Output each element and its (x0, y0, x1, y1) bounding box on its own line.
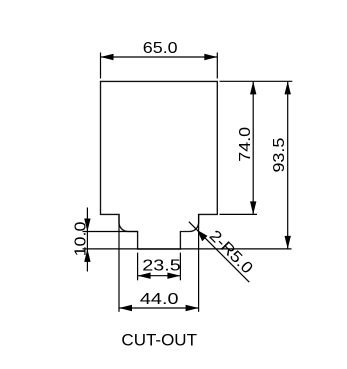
dimension 44.0 arrow left (119, 305, 132, 311)
leader line for 2-R5.0 (189, 222, 250, 283)
dimension 23.5 extension line right (179, 253, 181, 281)
dimension 74.0 arrow down (250, 201, 256, 214)
top extension line for vertical dimensions (220, 80, 293, 82)
dimension 44.0 extension line left (118, 214, 120, 311)
dimension 93.5 arrow up (285, 81, 291, 94)
dimension 44.0 arrow right (186, 305, 199, 311)
dimension 10.0 arrow up (below span) (84, 249, 90, 262)
svg-text:93.5: 93.5 (270, 138, 288, 173)
dimension 65.0 line (101, 56, 218, 58)
svg-text:74.0: 74.0 (236, 127, 254, 162)
svg-text:10.0: 10.0 (71, 222, 89, 257)
bottom extension line for 93.5 and 10.0 (83, 248, 292, 250)
dimension 44.0 line (119, 307, 199, 309)
dimension 23.5 arrow right (167, 273, 180, 279)
dimension 74.0 line (252, 81, 254, 214)
dimension 74.0 arrow up (250, 81, 256, 94)
dimension 65.0 extension line left (100, 53, 102, 79)
mid extension line for 10.0 (83, 231, 138, 233)
svg-text:65.0: 65.0 (143, 39, 178, 57)
cut-out profile outline (101, 81, 218, 249)
dimension 65.0 arrow right (204, 54, 217, 60)
leader arrow 2-R5.0 (197, 230, 208, 241)
dimension 65.0 arrow left (101, 54, 114, 60)
dimension 23.5 arrow left (138, 273, 151, 279)
step extension line for 74.0 (220, 213, 258, 215)
dimension 23.5 extension line left (137, 253, 139, 281)
dimension 10.0 line (86, 208, 88, 272)
svg-text:23.5: 23.5 (142, 256, 181, 274)
dimension 23.5 line (138, 275, 181, 277)
dimension 93.5 line (287, 81, 289, 249)
svg-text:44.0: 44.0 (140, 290, 179, 308)
dimension 44.0 extension line right (198, 214, 200, 311)
dimension 10.0 arrow down (above span) (84, 219, 90, 232)
dimension 93.5 arrow down (285, 236, 291, 249)
svg-text:2-R5.0: 2-R5.0 (206, 227, 257, 278)
dimension 65.0 extension line right (216, 53, 218, 79)
svg-text:CUT-OUT: CUT-OUT (121, 330, 197, 349)
